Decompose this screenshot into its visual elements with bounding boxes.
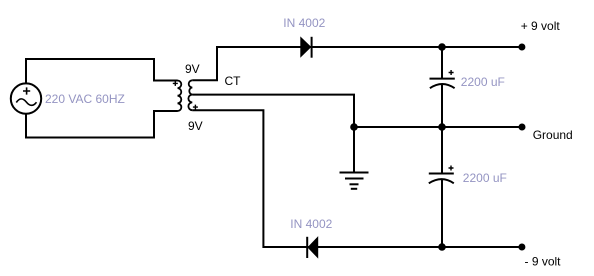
svg-text:CT: CT — [225, 74, 242, 88]
terminal node -9 volt — [518, 244, 525, 251]
svg-text:+ 9 volt: + 9 volt — [521, 19, 561, 33]
capacitor C1 2200 uF (top) — [430, 47, 455, 127]
junction dot ground rail / C2 — [438, 123, 446, 131]
svg-text:IN 4002: IN 4002 — [283, 16, 325, 30]
svg-text:IN 4002: IN 4002 — [290, 217, 332, 231]
svg-text:2200 uF: 2200 uF — [461, 75, 505, 89]
junction dot top rail / C1 — [438, 43, 446, 51]
transformer T1 primary winding — [178, 81, 182, 112]
junction dot bottom rail / C2 — [438, 243, 446, 251]
wire secondary bottom to -9V rail — [192, 110, 522, 247]
terminal node +9 volt — [518, 44, 525, 51]
junction dot CT / ground rail — [350, 123, 358, 131]
wire CT to ground rail — [192, 95, 354, 127]
svg-text:2200 uF: 2200 uF — [463, 171, 507, 185]
polarity + primary — [173, 81, 178, 86]
AC source V1 220 VAC 60HZ — [11, 83, 41, 113]
svg-text:Ground: Ground — [533, 128, 573, 142]
terminal node Ground — [519, 124, 526, 131]
svg-text:9V: 9V — [188, 119, 203, 133]
transformer T1 secondary winding (center tapped) — [188, 80, 192, 110]
capacitor C2 2200 uF (bottom) — [429, 127, 454, 247]
svg-text:- 9 volt: - 9 volt — [525, 255, 562, 269]
wire secondary top to +9V rail — [192, 47, 522, 80]
svg-text:220 VAC 60HZ: 220 VAC 60HZ — [45, 92, 125, 106]
ground symbol — [340, 127, 369, 189]
polarity + secondary — [193, 105, 198, 110]
diode D1 IN 4002 (top) — [301, 37, 312, 58]
svg-text:9V: 9V — [185, 62, 200, 76]
wire primary loop (left rectangle) — [26, 59, 178, 138]
wire ground rail — [354, 126, 522, 128]
diode D2 IN 4002 (bottom) — [307, 237, 318, 258]
